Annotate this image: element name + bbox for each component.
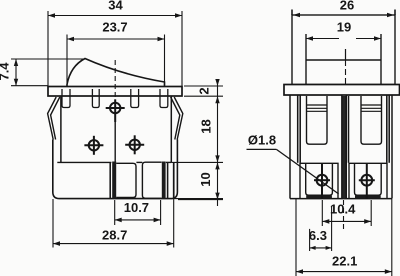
svg-text:10: 10 bbox=[198, 172, 213, 186]
svg-text:23.7: 23.7 bbox=[102, 20, 127, 35]
svg-text:34: 34 bbox=[108, 0, 123, 13]
svg-text:2: 2 bbox=[197, 87, 212, 94]
svg-text:6.3: 6.3 bbox=[309, 228, 327, 243]
svg-text:22.1: 22.1 bbox=[332, 254, 357, 269]
svg-text:28.7: 28.7 bbox=[102, 228, 127, 243]
svg-text:10.7: 10.7 bbox=[124, 200, 149, 215]
svg-text:18: 18 bbox=[199, 119, 214, 133]
svg-text:26: 26 bbox=[340, 0, 354, 13]
svg-text:19: 19 bbox=[337, 20, 351, 35]
svg-text:10.4: 10.4 bbox=[330, 202, 356, 217]
svg-text:Ø1.8: Ø1.8 bbox=[248, 133, 276, 148]
svg-text:7.4: 7.4 bbox=[0, 62, 12, 81]
